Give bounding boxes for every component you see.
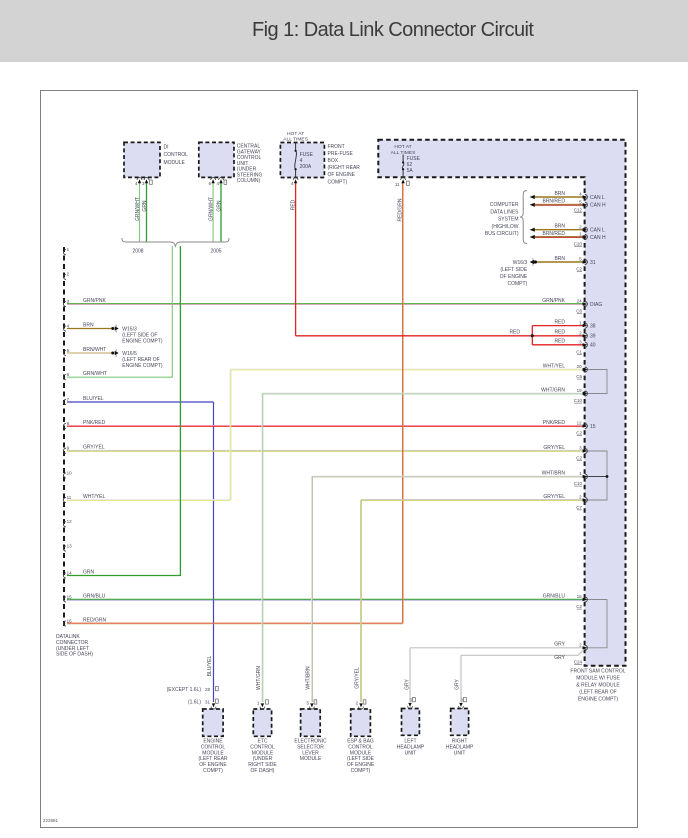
svg-text:(RIGHT REAR: (RIGHT REAR bbox=[328, 165, 361, 171]
svg-text:COMPT): COMPT) bbox=[507, 281, 527, 287]
svg-text:(1.6L): (1.6L) bbox=[188, 700, 201, 706]
svg-text:C2: C2 bbox=[576, 431, 582, 436]
svg-text:3: 3 bbox=[579, 340, 582, 345]
svg-text:5: 5 bbox=[579, 200, 582, 205]
svg-text:(LEFT SIDE: (LEFT SIDE bbox=[500, 267, 528, 273]
svg-text:2: 2 bbox=[579, 331, 582, 336]
svg-text:SYSTEM: SYSTEM bbox=[498, 217, 519, 223]
svg-text:31: 31 bbox=[205, 700, 211, 705]
svg-text:MODULE: MODULE bbox=[300, 756, 322, 762]
svg-text:COMPUTER: COMPUTER bbox=[490, 202, 519, 208]
svg-text:ALL TIMES: ALL TIMES bbox=[283, 137, 308, 143]
svg-text:5: 5 bbox=[579, 257, 582, 262]
svg-text:WHT/BRN: WHT/BRN bbox=[542, 470, 566, 476]
svg-text:WHT/BRN: WHT/BRN bbox=[305, 666, 311, 690]
svg-text:MODULE W/ FUSE: MODULE W/ FUSE bbox=[576, 676, 620, 682]
svg-text:OF ENGINE: OF ENGINE bbox=[328, 172, 356, 178]
svg-text:4: 4 bbox=[579, 192, 582, 197]
svg-text:C2: C2 bbox=[576, 266, 582, 271]
svg-text:8: 8 bbox=[67, 421, 70, 426]
svg-text:(HIGH/LOW: (HIGH/LOW bbox=[492, 224, 519, 230]
svg-text:2: 2 bbox=[579, 495, 582, 500]
svg-text:WHT/YEL: WHT/YEL bbox=[543, 363, 565, 369]
svg-text:GRY: GRY bbox=[554, 655, 565, 661]
svg-text:GRN/BLU: GRN/BLU bbox=[83, 593, 106, 599]
svg-text:BOX: BOX bbox=[328, 158, 339, 164]
svg-text:RED: RED bbox=[290, 199, 296, 210]
svg-text:13: 13 bbox=[67, 543, 73, 548]
svg-text:COMPT): COMPT) bbox=[351, 768, 371, 774]
svg-text:GRY/YEL: GRY/YEL bbox=[354, 667, 360, 689]
svg-text:3: 3 bbox=[67, 299, 70, 304]
svg-text:CAN L: CAN L bbox=[590, 228, 605, 234]
svg-text:MODULE: MODULE bbox=[164, 160, 186, 166]
svg-text:HOT AT: HOT AT bbox=[287, 131, 304, 137]
svg-text:C24: C24 bbox=[574, 660, 583, 665]
svg-text:GRY/YEL: GRY/YEL bbox=[83, 445, 105, 451]
svg-text:C2: C2 bbox=[576, 455, 582, 460]
svg-text:11: 11 bbox=[67, 495, 72, 500]
svg-text:UNIT: UNIT bbox=[405, 750, 417, 756]
svg-text:C10: C10 bbox=[574, 481, 583, 486]
svg-text:GRY/YEL: GRY/YEL bbox=[543, 494, 565, 500]
svg-text:2: 2 bbox=[579, 224, 582, 229]
svg-text:(LEFT REAR OF: (LEFT REAR OF bbox=[579, 690, 616, 696]
svg-text:GRN: GRN bbox=[142, 200, 148, 212]
svg-text:GRN/BLU: GRN/BLU bbox=[543, 593, 566, 599]
svg-text:11: 11 bbox=[395, 182, 400, 187]
svg-text:GRN/PNK: GRN/PNK bbox=[542, 298, 565, 304]
svg-text:1: 1 bbox=[579, 232, 582, 237]
svg-text:OF ENGINE: OF ENGINE bbox=[500, 274, 528, 280]
svg-text:RED: RED bbox=[509, 330, 520, 336]
svg-text:CAN H: CAN H bbox=[590, 203, 606, 209]
svg-text:C2: C2 bbox=[576, 604, 582, 609]
svg-text:12: 12 bbox=[67, 519, 73, 524]
svg-text:RED: RED bbox=[554, 330, 565, 336]
svg-text:28: 28 bbox=[205, 687, 211, 692]
svg-text:1: 1 bbox=[579, 471, 582, 476]
svg-text:BLU/YEL: BLU/YEL bbox=[83, 396, 104, 402]
svg-text:C10: C10 bbox=[574, 398, 583, 403]
svg-text:31: 31 bbox=[590, 260, 596, 266]
svg-text:BRN: BRN bbox=[554, 224, 565, 230]
svg-text:3: 3 bbox=[410, 698, 413, 703]
svg-text:C12: C12 bbox=[574, 208, 583, 213]
svg-text:PNK/RED: PNK/RED bbox=[543, 420, 566, 426]
svg-text:WHT/GRN: WHT/GRN bbox=[541, 387, 565, 393]
svg-text:COLUMN): COLUMN) bbox=[237, 178, 261, 184]
svg-text:BRN: BRN bbox=[554, 256, 565, 262]
svg-text:15: 15 bbox=[67, 594, 73, 599]
svg-text:39: 39 bbox=[590, 334, 596, 340]
svg-text:GRY/YEL: GRY/YEL bbox=[543, 445, 565, 451]
svg-text:ENGINE COMPT): ENGINE COMPT) bbox=[122, 339, 163, 345]
svg-text:9: 9 bbox=[67, 446, 70, 451]
svg-text:C6: C6 bbox=[576, 374, 582, 379]
svg-text:3: 3 bbox=[461, 698, 464, 703]
svg-text:C7: C7 bbox=[576, 505, 582, 510]
svg-text:UNIT: UNIT bbox=[454, 750, 466, 756]
svg-text:BRN/RED: BRN/RED bbox=[542, 231, 565, 237]
svg-text:7: 7 bbox=[67, 397, 70, 402]
svg-text:5: 5 bbox=[67, 348, 70, 353]
svg-text:BLU/YEL: BLU/YEL bbox=[207, 656, 213, 677]
svg-text:BRN: BRN bbox=[554, 191, 565, 197]
svg-text:40: 40 bbox=[590, 343, 596, 349]
svg-text:DATA LINES: DATA LINES bbox=[490, 209, 519, 215]
svg-text:ENGINE COMPT): ENGINE COMPT) bbox=[122, 363, 163, 369]
svg-text:GRN/PNK: GRN/PNK bbox=[83, 298, 106, 304]
svg-text:COMPT): COMPT) bbox=[203, 768, 223, 774]
svg-text:16: 16 bbox=[577, 594, 583, 599]
svg-text:BRN/WHT: BRN/WHT bbox=[83, 347, 106, 353]
svg-text:6: 6 bbox=[208, 181, 211, 186]
svg-text:6: 6 bbox=[67, 372, 70, 377]
svg-text:15: 15 bbox=[590, 424, 596, 430]
svg-text:4: 4 bbox=[216, 181, 219, 186]
svg-text:CAN L: CAN L bbox=[590, 195, 605, 201]
svg-text:1: 1 bbox=[579, 320, 582, 325]
svg-text:DI: DI bbox=[164, 144, 169, 150]
svg-text:WHT/YEL: WHT/YEL bbox=[83, 494, 105, 500]
svg-text:GRN/WHT: GRN/WHT bbox=[208, 197, 214, 221]
svg-text:12: 12 bbox=[577, 421, 583, 426]
svg-text:GRN: GRN bbox=[216, 200, 222, 212]
svg-text:2: 2 bbox=[67, 272, 70, 277]
svg-text:BRN: BRN bbox=[83, 322, 94, 328]
svg-text:14: 14 bbox=[67, 570, 73, 575]
svg-text:OF DASH): OF DASH) bbox=[251, 768, 275, 774]
svg-text:& RELAY MODULE: & RELAY MODULE bbox=[576, 683, 620, 689]
svg-text:5A: 5A bbox=[407, 168, 414, 174]
svg-text:W16/3: W16/3 bbox=[513, 260, 528, 266]
svg-text:C6: C6 bbox=[576, 309, 582, 314]
svg-text:RED: RED bbox=[554, 319, 565, 325]
svg-text:1: 1 bbox=[67, 247, 70, 252]
svg-text:C20: C20 bbox=[574, 241, 583, 246]
svg-text:DIAG: DIAG bbox=[590, 302, 602, 308]
svg-text:PNK/RED: PNK/RED bbox=[83, 420, 106, 426]
svg-text:COMPT): COMPT) bbox=[328, 179, 348, 185]
svg-text:4: 4 bbox=[135, 181, 138, 186]
svg-text:CONTROL: CONTROL bbox=[164, 152, 189, 158]
svg-text:16: 16 bbox=[67, 618, 73, 623]
svg-text:GRY: GRY bbox=[554, 642, 565, 648]
svg-text:2: 2 bbox=[579, 643, 582, 648]
svg-text:5: 5 bbox=[306, 701, 309, 706]
svg-text:222881: 222881 bbox=[43, 818, 59, 823]
svg-text:C1: C1 bbox=[576, 349, 582, 354]
svg-text:3: 3 bbox=[142, 181, 145, 186]
svg-text:RED: RED bbox=[554, 339, 565, 345]
svg-text:BUS CIRCUIT): BUS CIRCUIT) bbox=[485, 231, 519, 237]
svg-text:RED/GRN: RED/GRN bbox=[83, 617, 106, 623]
svg-text:GRN/WHT: GRN/WHT bbox=[135, 197, 141, 221]
svg-text:10: 10 bbox=[67, 470, 73, 475]
svg-text:2005: 2005 bbox=[210, 249, 221, 255]
svg-text:PRE-FUSE: PRE-FUSE bbox=[328, 151, 354, 157]
svg-text:GRY: GRY bbox=[404, 678, 410, 689]
svg-text:HOT AT: HOT AT bbox=[394, 144, 411, 150]
svg-text:19: 19 bbox=[577, 388, 583, 393]
svg-text:CAN H: CAN H bbox=[590, 235, 606, 241]
svg-text:WHT/GRN: WHT/GRN bbox=[256, 666, 262, 690]
svg-text:FRONT SAM CONTROL: FRONT SAM CONTROL bbox=[570, 669, 625, 675]
svg-text:GRN: GRN bbox=[83, 569, 95, 575]
svg-text:SIDE OF DASH): SIDE OF DASH) bbox=[56, 652, 93, 658]
svg-text:GRN/WHT: GRN/WHT bbox=[83, 371, 107, 377]
svg-text:2008: 2008 bbox=[132, 249, 143, 255]
svg-text:1: 1 bbox=[257, 701, 260, 706]
svg-text:RED/GRN: RED/GRN bbox=[398, 198, 404, 221]
svg-text:(EXCEPT 1.6L): (EXCEPT 1.6L) bbox=[167, 687, 202, 693]
svg-text:24: 24 bbox=[577, 299, 583, 304]
svg-text:38: 38 bbox=[590, 323, 596, 329]
svg-text:GRY: GRY bbox=[454, 678, 460, 689]
svg-text:4: 4 bbox=[67, 323, 70, 328]
svg-text:200A: 200A bbox=[300, 164, 312, 170]
svg-text:2: 2 bbox=[356, 701, 359, 706]
svg-text:20: 20 bbox=[577, 364, 583, 369]
svg-text:BRN/RED: BRN/RED bbox=[542, 199, 565, 205]
svg-text:ENGINE COMPT): ENGINE COMPT) bbox=[578, 697, 619, 703]
svg-text:4: 4 bbox=[291, 181, 294, 186]
svg-text:FRONT: FRONT bbox=[328, 144, 345, 150]
svg-text:ALL TIMES: ALL TIMES bbox=[391, 150, 416, 156]
